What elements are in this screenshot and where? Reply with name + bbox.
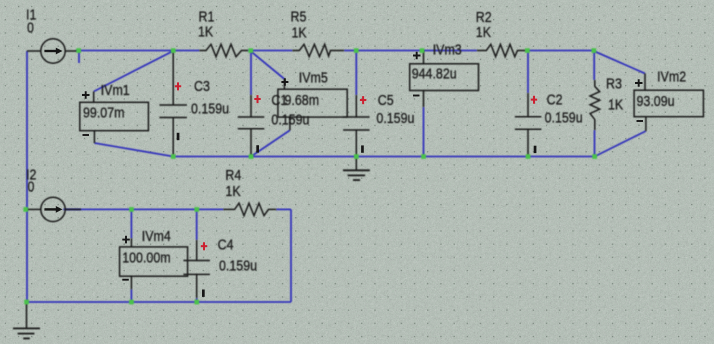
- svg-text:99.07m: 99.07m: [83, 104, 124, 120]
- svg-text:0: 0: [28, 178, 35, 194]
- svg-text:1K: 1K: [476, 24, 492, 40]
- svg-text:0.159u: 0.159u: [545, 109, 583, 125]
- svg-text:R5: R5: [291, 8, 307, 24]
- svg-text:1K: 1K: [292, 24, 308, 40]
- svg-text:0.159u: 0.159u: [219, 257, 257, 273]
- svg-text:C2: C2: [547, 91, 563, 107]
- svg-text:0.159u: 0.159u: [376, 110, 414, 126]
- svg-text:IVm1: IVm1: [101, 82, 130, 98]
- svg-text:IVm4: IVm4: [142, 228, 171, 244]
- svg-text:C4: C4: [218, 236, 234, 252]
- svg-text:0: 0: [27, 19, 34, 35]
- svg-text:IVm3: IVm3: [433, 41, 462, 57]
- svg-text:100.00m: 100.00m: [122, 249, 170, 265]
- svg-text:C5: C5: [378, 92, 394, 108]
- svg-text:944.82u: 944.82u: [412, 65, 457, 81]
- svg-text:R3: R3: [606, 75, 622, 91]
- svg-text:1K: 1K: [225, 183, 241, 199]
- svg-text:C3: C3: [194, 78, 210, 94]
- svg-text:R4: R4: [225, 167, 241, 183]
- svg-text:93.09u: 93.09u: [637, 93, 675, 109]
- svg-text:1K: 1K: [608, 96, 624, 112]
- svg-text:IVm5: IVm5: [299, 69, 328, 85]
- svg-text:R2: R2: [476, 9, 492, 25]
- svg-text:1K: 1K: [198, 24, 214, 40]
- svg-text:0.159u: 0.159u: [271, 111, 309, 127]
- svg-text:IVm2: IVm2: [657, 68, 686, 84]
- svg-text:9.68m: 9.68m: [285, 92, 320, 108]
- svg-text:0.159u: 0.159u: [191, 100, 229, 116]
- svg-text:R1: R1: [199, 8, 215, 24]
